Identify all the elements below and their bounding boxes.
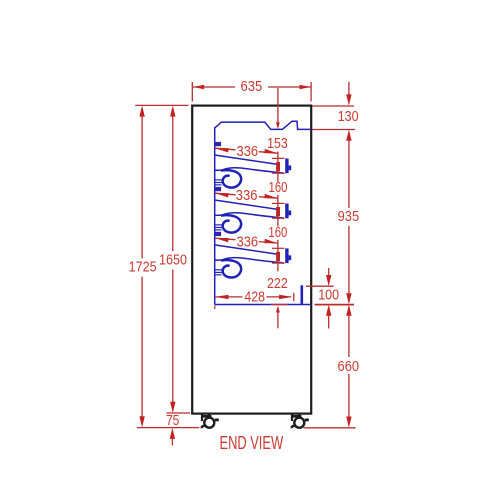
svg-text:160: 160 [268, 225, 287, 241]
svg-text:100: 100 [318, 288, 339, 304]
svg-text:336: 336 [236, 188, 258, 204]
svg-text:1650: 1650 [159, 252, 187, 268]
svg-text:635: 635 [241, 79, 263, 95]
svg-text:1725: 1725 [129, 260, 157, 276]
svg-text:428: 428 [244, 290, 265, 306]
svg-text:75: 75 [166, 413, 180, 429]
svg-text:153: 153 [267, 136, 288, 152]
svg-text:935: 935 [338, 209, 360, 225]
svg-text:222: 222 [267, 276, 288, 292]
svg-text:660: 660 [338, 359, 360, 375]
svg-text:END VIEW: END VIEW [220, 433, 284, 453]
svg-text:160: 160 [269, 180, 288, 196]
svg-text:130: 130 [338, 109, 359, 125]
svg-text:336: 336 [237, 234, 259, 250]
svg-text:336: 336 [237, 144, 259, 160]
